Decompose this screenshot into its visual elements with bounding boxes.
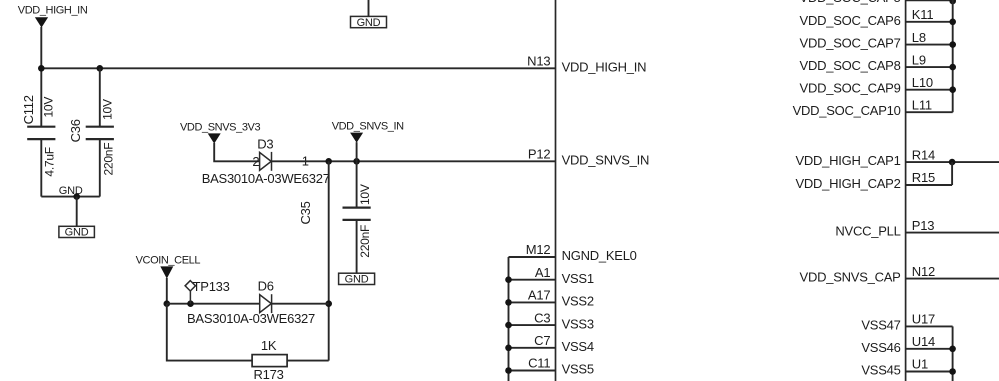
junction D6 cathode node — [325, 300, 332, 307]
svg-text:D3: D3 — [257, 136, 273, 151]
wire VSS tie left — [508, 257, 510, 381]
pin U1 VSS45 — [861, 357, 956, 378]
svg-text:L8: L8 — [912, 30, 926, 45]
diode D3 — [260, 152, 272, 171]
svg-text:A1: A1 — [535, 265, 551, 280]
pin C3 VSS3 — [505, 310, 594, 331]
wire D6 cathode to node — [272, 303, 329, 305]
capacitor C35 — [343, 161, 371, 273]
svg-text:BAS3010A-03WE6327: BAS3010A-03WE6327 — [187, 311, 315, 326]
pin N13 VDD_HIGH_IN — [527, 54, 646, 75]
resistor R173 — [252, 355, 287, 367]
pin C11 VSS5 — [505, 356, 594, 377]
power flag VDD_HIGH_IN — [18, 4, 88, 27]
pin L8 VDD_SOC_CAP7 — [800, 30, 956, 51]
svg-text:M12: M12 — [526, 242, 551, 257]
svg-text:N12: N12 — [912, 264, 935, 279]
svg-text:VSS45: VSS45 — [861, 363, 900, 378]
svg-text:VCOIN_CELL: VCOIN_CELL — [136, 254, 201, 266]
chip U1 right edge — [905, 0, 907, 381]
power flag VCOIN_CELL — [136, 254, 201, 278]
junction node VCOIN diode feed — [325, 158, 332, 165]
svg-text:VDD_SNVS_CAP: VDD_SNVS_CAP — [800, 270, 901, 285]
pin U17 VSS47 — [861, 312, 952, 333]
svg-text:VDD_HIGH_IN: VDD_HIGH_IN — [18, 4, 88, 16]
wire VSS tie right — [952, 326, 954, 381]
pin VDD_SOC_CAP5 partial top — [800, 0, 956, 5]
wire HIGH_CAP tie — [951, 162, 953, 185]
wire top GND stem — [368, 0, 370, 16]
svg-text:U17: U17 — [912, 312, 935, 327]
svg-text:C36: C36 — [68, 119, 83, 142]
svg-text:U14: U14 — [912, 334, 935, 349]
svg-text:10V: 10V — [42, 97, 56, 118]
wire VCOIN_CELL flag stem — [166, 278, 168, 304]
capacitor C112 — [27, 127, 55, 197]
svg-text:10V: 10V — [100, 99, 114, 120]
svg-text:R173: R173 — [254, 367, 284, 381]
wire node vertical from D3 cathode down to R173 — [328, 161, 330, 360]
power flag VDD_SNVS_IN — [332, 121, 404, 143]
svg-text:VSS4: VSS4 — [562, 339, 594, 354]
svg-text:L9: L9 — [912, 52, 926, 67]
junction C35 tap — [353, 158, 360, 165]
svg-text:C7: C7 — [534, 333, 550, 348]
svg-text:GND: GND — [345, 274, 369, 286]
svg-text:NGND_KEL0: NGND_KEL0 — [562, 248, 637, 263]
junction VCOIN_CELL at wire — [164, 300, 171, 307]
pin M12 NGND_KEL0 — [509, 242, 637, 263]
svg-text:1K: 1K — [261, 338, 277, 353]
svg-text:VSS46: VSS46 — [861, 340, 900, 355]
svg-text:220nF: 220nF — [101, 143, 115, 176]
wire VDD_HIGH_IN flag stem — [40, 27, 42, 127]
svg-text:NVCC_PLL: NVCC_PLL — [835, 224, 900, 239]
pin K11 VDD_SOC_CAP6 — [800, 7, 956, 28]
diode D6 — [260, 294, 272, 313]
svg-text:4.7uF: 4.7uF — [43, 147, 57, 176]
pin A17 VSS2 — [505, 288, 594, 309]
power flag VDD_SNVS_3V3 — [180, 121, 260, 143]
wire VDD_SNVS_3V3 to D3 anode — [214, 143, 259, 161]
svg-text:BAS3010A-03WE6327: BAS3010A-03WE6327 — [202, 171, 330, 186]
svg-text:C11: C11 — [528, 356, 550, 371]
pin U14 VSS46 — [861, 334, 956, 355]
svg-text:C35: C35 — [298, 201, 313, 224]
wire VCOIN_CELL to D6 anode — [167, 303, 260, 305]
chip U1 left edge — [555, 0, 557, 381]
svg-text:U1: U1 — [912, 357, 928, 372]
svg-text:2: 2 — [252, 154, 259, 169]
svg-text:K11: K11 — [912, 7, 934, 22]
svg-text:R15: R15 — [912, 170, 935, 185]
pin C7 VSS4 — [505, 333, 594, 354]
wire GND bus below C112 C36 — [41, 196, 100, 198]
ground symbol GND box C35 — [339, 273, 375, 285]
svg-text:VDD_HIGH_CAP2: VDD_HIGH_CAP2 — [795, 176, 900, 191]
svg-text:VDD_SOC_CAP7: VDD_SOC_CAP7 — [800, 36, 901, 51]
pin N12 VDD_SNVS_CAP — [800, 264, 999, 285]
svg-text:VDD_HIGH_IN: VDD_HIGH_IN — [562, 60, 647, 75]
pin P12 VDD_SNVS_IN — [528, 147, 649, 168]
svg-text:C112: C112 — [21, 95, 36, 124]
svg-text:VDD_SNVS_3V3: VDD_SNVS_3V3 — [180, 121, 260, 133]
svg-text:D6: D6 — [258, 278, 274, 293]
svg-text:VDD_SOC_CAP6: VDD_SOC_CAP6 — [800, 13, 901, 28]
svg-text:VDD_SOC_CAP8: VDD_SOC_CAP8 — [800, 58, 901, 73]
wire D3 cathode to pin P12 — [272, 160, 556, 162]
pin R15 VDD_HIGH_CAP2 — [795, 170, 952, 191]
svg-text:VDD_HIGH_CAP1: VDD_HIGH_CAP1 — [795, 153, 900, 168]
svg-text:VDD_SNVS_IN: VDD_SNVS_IN — [332, 121, 404, 133]
svg-text:VDD_SOC_CAP10: VDD_SOC_CAP10 — [793, 103, 901, 118]
svg-text:C3: C3 — [534, 310, 550, 325]
pin P13 NVCC_PLL — [835, 218, 999, 239]
ground symbol GND box top — [351, 16, 387, 28]
pin A1 VSS1 — [505, 265, 594, 286]
junction C112 tap — [38, 65, 45, 72]
junction GND stem — [73, 193, 80, 200]
ground symbol GND box left — [59, 226, 95, 238]
svg-text:GND: GND — [65, 227, 89, 239]
svg-text:VDD_SNVS_IN: VDD_SNVS_IN — [562, 153, 650, 168]
wire R173 to node — [287, 360, 329, 362]
wire VDD_SNVS_IN flag stem — [356, 142, 358, 161]
svg-text:N13: N13 — [527, 54, 550, 69]
wire R173 loop left and bottom — [167, 304, 252, 361]
pin L10 VDD_SOC_CAP9 — [800, 75, 956, 96]
svg-text:TP133: TP133 — [193, 279, 230, 294]
junction TP133 tap — [187, 300, 194, 307]
svg-text:L10: L10 — [912, 75, 933, 90]
svg-text:P12: P12 — [528, 147, 551, 162]
pin L9 VDD_SOC_CAP8 — [800, 52, 956, 73]
junction C36 tap — [97, 65, 104, 72]
test point TP133 — [185, 281, 195, 304]
svg-text:220nF: 220nF — [358, 225, 372, 258]
capacitor C36 — [86, 68, 114, 196]
svg-text:VSS2: VSS2 — [562, 294, 594, 309]
svg-text:VDD_SOC_CAP9: VDD_SOC_CAP9 — [800, 81, 901, 96]
svg-text:GND: GND — [357, 17, 381, 29]
svg-text:A17: A17 — [528, 288, 551, 303]
svg-text:P13: P13 — [912, 218, 935, 233]
pin R14 VDD_HIGH_CAP1 — [795, 147, 999, 168]
wire net VDD_HIGH_IN rail to pin N13 — [41, 67, 555, 69]
svg-text:R14: R14 — [912, 147, 935, 162]
svg-text:L11: L11 — [912, 97, 932, 112]
svg-text:VDD_SOC_CAP5: VDD_SOC_CAP5 — [800, 0, 901, 5]
svg-text:VSS1: VSS1 — [562, 271, 594, 286]
svg-text:VSS47: VSS47 — [861, 317, 900, 332]
wire SOC_CAP tie — [952, 0, 954, 112]
svg-text:VSS3: VSS3 — [562, 316, 594, 331]
svg-text:10V: 10V — [358, 184, 372, 205]
pin L11 VDD_SOC_CAP10 — [793, 97, 953, 118]
svg-text:VSS5: VSS5 — [562, 362, 594, 377]
wire GND stem — [76, 197, 78, 227]
